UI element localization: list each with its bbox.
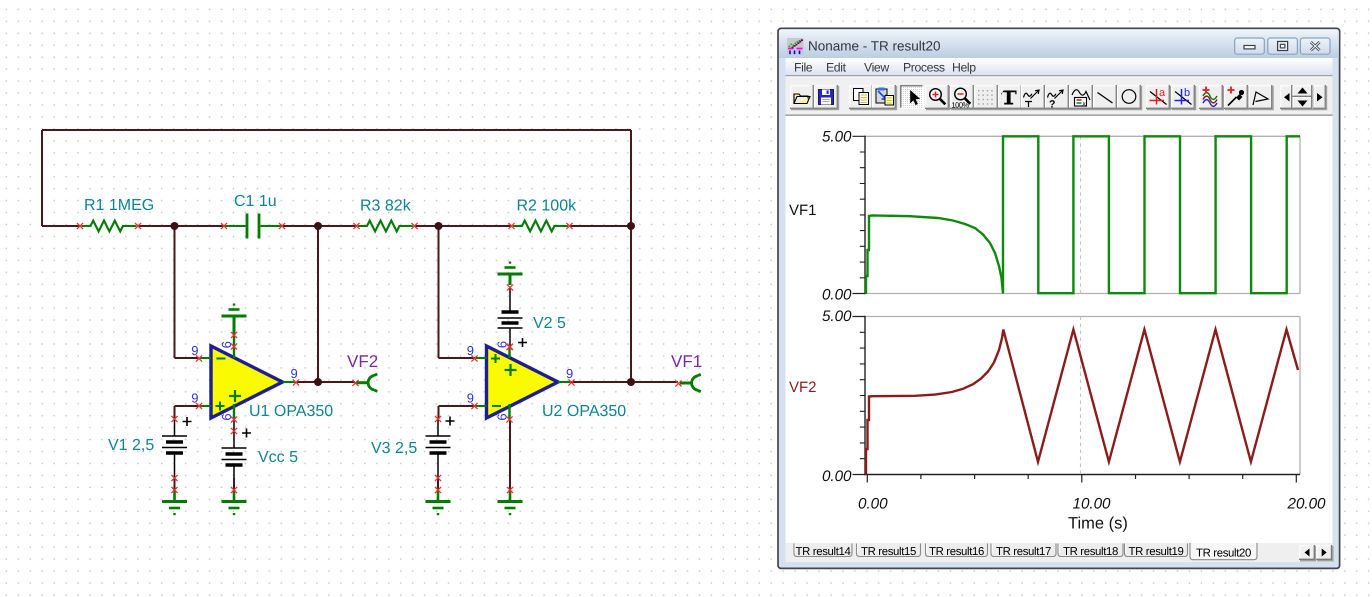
svg-text:9: 9 [467,391,474,406]
svg-text:View: View [864,61,889,75]
svg-text:TR result16: TR result16 [929,546,984,558]
svg-text:VF1: VF1 [789,202,817,219]
svg-text:Edit: Edit [826,61,847,75]
svg-text:TR result14: TR result14 [795,546,850,558]
svg-text:R2 100k: R2 100k [517,198,578,215]
svg-text:9: 9 [291,366,298,381]
svg-text:VF1: VF1 [671,352,702,371]
svg-text:5.00: 5.00 [822,129,852,146]
svg-text:Time (s): Time (s) [1068,515,1128,533]
svg-text:?: ? [1049,99,1055,111]
svg-text:9: 9 [467,343,474,358]
svg-text:R1 1MEG: R1 1MEG [84,197,154,214]
svg-text:V3 2,5: V3 2,5 [371,440,417,457]
svg-text:U1 OPA350: U1 OPA350 [249,403,333,420]
svg-text:5.00: 5.00 [822,308,852,325]
svg-text:Vcc 5: Vcc 5 [258,449,298,466]
svg-text:File: File [794,61,813,75]
svg-text:V1 2,5: V1 2,5 [108,437,154,454]
svg-text:20.00: 20.00 [1287,496,1327,513]
svg-text:TR result19: TR result19 [1128,546,1183,558]
svg-text:100%: 100% [952,101,970,110]
svg-text:b: b [1184,87,1190,99]
svg-text:TR result18: TR result18 [1063,546,1118,558]
svg-text:U2 OPA350: U2 OPA350 [542,403,626,420]
svg-text:R3 82k: R3 82k [360,198,412,215]
svg-text:Process: Process [903,61,945,75]
svg-text:Noname - TR result20: Noname - TR result20 [808,39,941,54]
svg-text:Help: Help [952,61,976,75]
svg-text:C1 1u: C1 1u [234,193,277,210]
svg-text:VF2: VF2 [789,379,817,396]
svg-text:9: 9 [566,366,573,381]
svg-text:0.00: 0.00 [858,496,888,513]
svg-text:0.00: 0.00 [822,286,852,303]
svg-text:TR result15: TR result15 [861,546,916,558]
svg-text:VF2: VF2 [347,352,378,371]
svg-text:9: 9 [191,343,198,358]
svg-text:TR result17: TR result17 [996,546,1051,558]
svg-text:10.00: 10.00 [1073,496,1112,513]
svg-text:a: a [1159,87,1166,99]
svg-text:0.00: 0.00 [822,468,852,485]
svg-text:TR result20: TR result20 [1196,548,1251,560]
svg-text:V2 5: V2 5 [533,315,566,332]
svg-text:9: 9 [191,391,198,406]
